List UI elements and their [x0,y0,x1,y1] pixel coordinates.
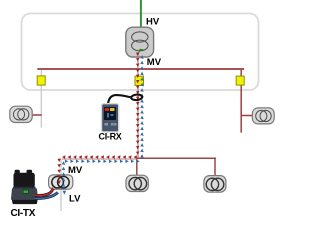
CI-TX red cable [35,190,53,196]
svg-text:LV: LV [69,194,81,205]
wire: left joint stub (gray) [40,70,42,128]
cable joint J3 (yellow) [236,76,244,85]
HV feeder line (green) [140,0,142,32]
svg-text:HV: HV [146,17,160,28]
wire: thin gray LV stub below T6 [60,159,62,211]
wire: connector to right transformer (red) [241,115,252,117]
MV bus (red horizontal) [37,68,244,70]
svg-text:MV: MV [68,165,83,176]
wire: drop to bottom-right transformer (red) [214,158,216,175]
wire: right feeder drop (red) [240,70,242,133]
CI-RX receiver device U1 [102,104,119,132]
transformer T6 MV/LV (bottom left) [49,175,73,189]
transformer T3 (right) [252,108,274,124]
signal path vertical 1 (red/blue dashes) [136,52,140,56]
CI-RX probe cable (black) [108,95,131,104]
wire: connector to left transformer (red) [32,114,42,116]
svg-text:CI-TX: CI-TX [11,208,36,219]
svg-text:CI-RX: CI-RX [99,132,122,142]
wire: bottom feeder horizontal (red) [136,157,216,159]
transformer T1 HV/MV (top center) [126,27,154,57]
CI-TX blue cable [35,192,58,198]
signal path horizontal (red/blue dashes) [62,155,66,159]
CI-RX coupling coil (black ring) [131,94,142,100]
wire: thin line under horizontal dashes [62,158,137,160]
cable joint J1 (yellow) [37,76,45,85]
substation boundary (rounded outline) [22,14,259,91]
svg-text:MV: MV [147,57,162,68]
wire: drop to bottom-center transformer (red) [136,158,138,175]
transformer T4 (bottom center) [126,175,148,191]
signal path vertical 2 (red/blue dashes) [58,159,62,163]
cable joint J2 (yellow) [135,76,144,85]
CI-TX injector device U2 [11,170,38,204]
wire: center feeder (thin red under dashes) [137,52,139,159]
transformer T5 (bottom right) [204,176,226,193]
transformer T2 (left) [10,106,32,122]
